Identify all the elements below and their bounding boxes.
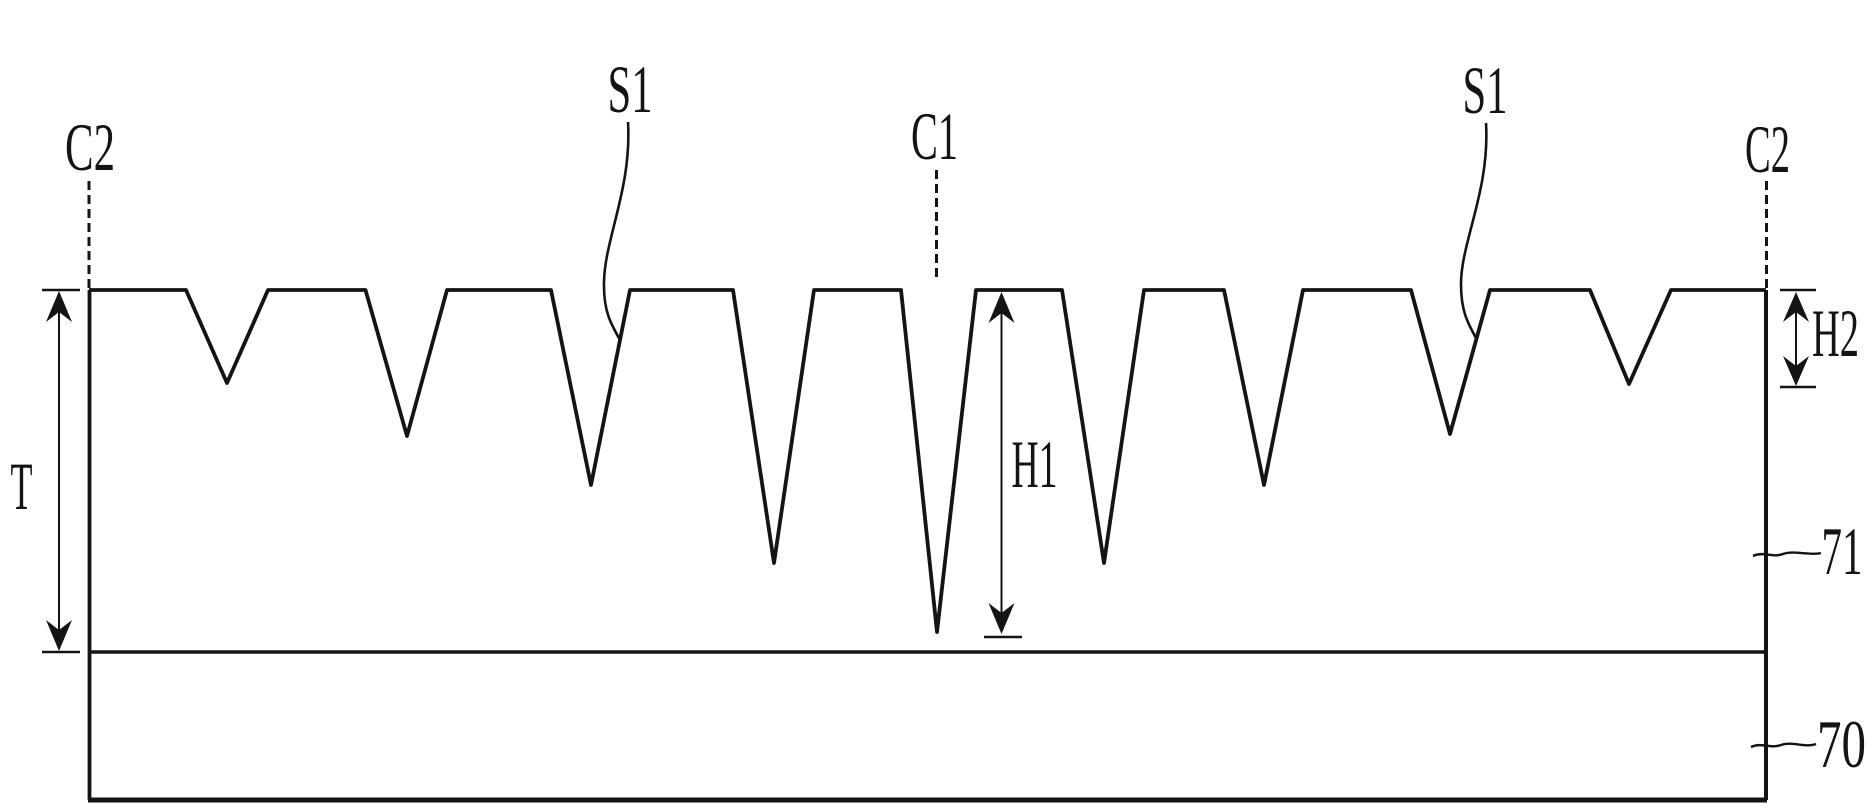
dimension T lower tick: [42, 651, 80, 653]
dimension arrow H2 lower arrowhead: [1783, 356, 1809, 386]
layer 70 bottom edge: [88, 798, 1767, 803]
dimension arrow H1 shaft: [1001, 296, 1003, 630]
dimension arrow H2 upper arrowhead: [1783, 292, 1809, 322]
layer 71 left edge wall: [88, 290, 92, 800]
dimension H2 lower tick: [1780, 386, 1816, 388]
leader line for label 70: [1751, 744, 1816, 747]
boundary line between layer 71 and layer 70: [89, 650, 1766, 653]
cut line C1 (center, dashed): [935, 170, 938, 280]
svg-text:C1: C1: [911, 98, 958, 174]
dimension arrow H2 shaft: [1795, 296, 1797, 382]
svg-text:T: T: [11, 448, 33, 524]
dimension arrow T shaft: [58, 296, 60, 646]
leader line from label S1 (left) to groove surface: [604, 122, 628, 340]
svg-text:S1: S1: [1463, 52, 1508, 128]
svg-text:C2: C2: [1745, 111, 1790, 187]
layer 71 right edge wall: [1764, 290, 1768, 800]
leader line from label S1 (right) to groove surface: [1461, 123, 1486, 338]
svg-text:70: 70: [1817, 706, 1866, 782]
layer 71 grooved top surface: [89, 290, 1766, 632]
svg-text:C2: C2: [65, 109, 115, 185]
cut line C2 (left, dashed): [88, 181, 91, 289]
svg-text:H1: H1: [1012, 426, 1058, 502]
svg-text:71: 71: [1822, 513, 1863, 589]
dimension arrow H1 lower arrowhead: [989, 603, 1015, 634]
svg-text:S1: S1: [608, 51, 653, 127]
svg-text:H2: H2: [1812, 295, 1859, 371]
dimension H1 lower tick: [984, 636, 1022, 638]
dimension H2 upper tick: [1780, 289, 1816, 291]
dimension arrow T lower arrowhead: [46, 620, 72, 651]
dimension T upper tick: [42, 289, 80, 291]
dimension arrow T upper arrowhead: [46, 291, 72, 322]
dimension arrow H1 upper arrowhead: [989, 292, 1015, 323]
cut line C2 (right, dashed): [1765, 181, 1768, 288]
leader line for label 71: [1753, 553, 1821, 556]
